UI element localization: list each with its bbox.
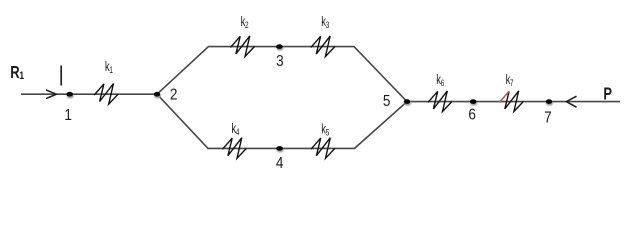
svg-text:6: 6 — [468, 106, 476, 123]
svg-text:2: 2 — [245, 20, 249, 30]
svg-text:7: 7 — [544, 110, 552, 127]
svg-text:4: 4 — [276, 155, 284, 172]
svg-text:1: 1 — [109, 65, 113, 75]
svg-text:R: R — [10, 63, 19, 83]
svg-text:4: 4 — [236, 127, 240, 137]
svg-text:P: P — [603, 85, 612, 105]
svg-text:7: 7 — [510, 78, 514, 88]
svg-text:5: 5 — [326, 127, 330, 137]
svg-text:2: 2 — [170, 87, 178, 104]
svg-text:3: 3 — [326, 20, 330, 30]
svg-text:1: 1 — [19, 70, 24, 82]
svg-text:3: 3 — [276, 53, 284, 70]
svg-text:1: 1 — [64, 107, 72, 124]
svg-text:5: 5 — [383, 93, 391, 110]
svg-text:6: 6 — [441, 78, 445, 88]
